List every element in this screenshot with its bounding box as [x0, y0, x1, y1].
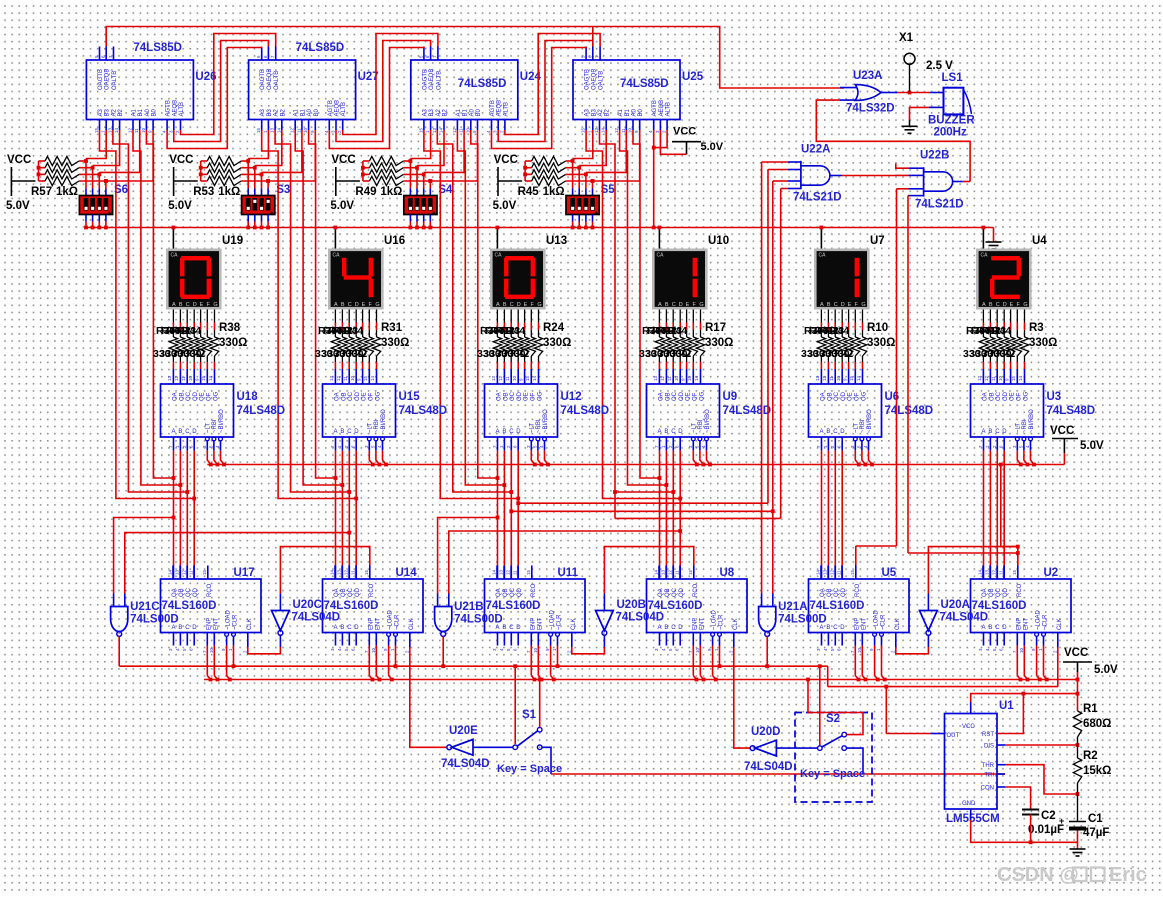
svg-text:14: 14: [978, 569, 983, 575]
svg-text:~LT: ~LT: [1016, 423, 1022, 433]
capacitor C2: [1022, 809, 1039, 811]
wire S1 bottom contact to timing line: [542, 747, 551, 774]
svg-text:74LS85D: 74LS85D: [620, 78, 669, 90]
wires ENP/ENT/LOAD to VCC bus: [692, 646, 694, 676]
svg-text:R44: R44: [344, 325, 363, 337]
svg-text:U5: U5: [882, 567, 897, 579]
svg-text:OA: OA: [496, 392, 502, 401]
counter U2 74LS160D: [971, 579, 1072, 633]
svg-text:~LOAD: ~LOAD: [550, 609, 556, 630]
svg-text:15: 15: [850, 569, 855, 575]
wire OR output to buzzer: [881, 92, 897, 94]
svg-text:Ω: Ω: [196, 348, 205, 360]
wire clock bus L1: [119, 665, 828, 667]
svg-text:12: 12: [182, 569, 187, 575]
resistor pack R24 330: [496, 310, 498, 323]
svg-text:C: C: [833, 429, 838, 435]
svg-text:QA: QA: [820, 588, 826, 597]
svg-text:14: 14: [276, 127, 281, 133]
wire 555 GND pin to ground bus: [970, 809, 972, 820]
svg-text:VCC: VCC: [962, 724, 975, 730]
svg-text:LS1: LS1: [942, 72, 964, 84]
svg-text:15: 15: [201, 375, 206, 381]
svg-text:C1: C1: [1088, 813, 1103, 825]
buzzer LS1: [944, 88, 964, 115]
svg-text:A: A: [658, 302, 662, 308]
svg-text:A: A: [172, 302, 176, 308]
OR gate U23A 74LS32D: [855, 85, 881, 101]
svg-text:QA: QA: [658, 588, 664, 597]
svg-text:B1: B1: [463, 108, 469, 116]
svg-text:13: 13: [823, 569, 828, 575]
svg-text:5.0V: 5.0V: [701, 141, 724, 153]
inverter U20B 74LS04D: [596, 611, 614, 631]
svg-text:10: 10: [1019, 647, 1024, 653]
svg-text:15: 15: [418, 127, 423, 133]
svg-text:U19: U19: [222, 235, 243, 247]
svg-text:RST: RST: [982, 732, 994, 738]
svg-text:VCC: VCC: [7, 154, 31, 166]
svg-text:U9: U9: [723, 391, 738, 403]
svg-text:74LS85D: 74LS85D: [133, 42, 182, 54]
svg-text:+: +: [270, 211, 274, 218]
svg-text:13: 13: [661, 569, 666, 575]
svg-text:QB: QB: [179, 588, 185, 597]
decoder U9 74LS48D: [647, 384, 720, 437]
wires U22A inputs: [788, 161, 801, 163]
svg-text:A: A: [496, 625, 500, 631]
svg-text:D: D: [840, 625, 845, 631]
svg-text:5.0V: 5.0V: [1080, 440, 1104, 452]
svg-text:VCC: VCC: [331, 154, 355, 166]
svg-text:RCO: RCO: [207, 583, 213, 597]
svg-text:U13: U13: [546, 235, 567, 247]
svg-text:G: G: [537, 302, 541, 308]
svg-text:OALTB: OALTB: [112, 71, 118, 90]
svg-text:15: 15: [581, 127, 586, 133]
svg-text:OG: OG: [862, 391, 868, 401]
svg-text:74LS85D: 74LS85D: [296, 42, 345, 54]
svg-text:QB: QB: [827, 588, 833, 597]
svg-text:U18: U18: [237, 391, 259, 403]
svg-text:B3: B3: [105, 108, 111, 116]
svg-text:U12: U12: [561, 391, 582, 403]
svg-text:D: D: [354, 429, 359, 435]
wire U22A output to U22B: [830, 175, 842, 177]
comparator U27 74LS85D: [249, 60, 356, 120]
svg-text:11: 11: [505, 376, 510, 381]
svg-text:U20C: U20C: [293, 599, 322, 611]
svg-text:QD: QD: [841, 587, 847, 597]
svg-text:13: 13: [270, 127, 275, 133]
wire cascade AGTB: [167, 47, 262, 149]
wire 555 THR elbow: [997, 764, 1005, 766]
svg-text:11: 11: [351, 570, 356, 575]
svg-text:D: D: [355, 302, 359, 308]
wire CLR to clear bus: [233, 646, 235, 667]
svg-text:U4: U4: [1032, 235, 1047, 247]
svg-text:A: A: [658, 625, 662, 631]
svg-text:QC: QC: [672, 587, 678, 597]
svg-text:13: 13: [491, 375, 496, 381]
svg-text:U14: U14: [396, 567, 418, 579]
svg-text:G: G: [699, 302, 703, 308]
resistor pack R53 1k: [201, 160, 208, 162]
wires decoder LT/RBI/BI to VCC bus: [1017, 451, 1021, 465]
DIP switch S4: [404, 196, 437, 215]
svg-text:B: B: [989, 302, 993, 308]
svg-text:~LOAD: ~LOAD: [388, 609, 394, 630]
svg-text:13: 13: [432, 127, 437, 133]
svg-text:C2: C2: [1041, 810, 1056, 822]
counter U17 74LS160D: [161, 579, 262, 633]
svg-text:OC: OC: [348, 391, 354, 401]
svg-text:15: 15: [363, 375, 368, 381]
wire S1 top contact to VCC bus: [539, 680, 541, 728]
svg-text:U20E: U20E: [449, 725, 478, 737]
svg-text:OB: OB: [989, 392, 995, 401]
svg-text:A: A: [820, 429, 824, 435]
wires DIP to bottom bus: [85, 215, 87, 222]
seven-segment display U16: [328, 249, 384, 310]
svg-text:C: C: [995, 625, 1000, 631]
svg-text:E: E: [524, 302, 528, 308]
svg-text:Ω: Ω: [358, 348, 367, 360]
svg-text:R53: R53: [193, 186, 214, 198]
svg-text:ENT: ENT: [1023, 618, 1029, 630]
svg-text:74LS160D: 74LS160D: [162, 600, 217, 612]
svg-text:OALTB: OALTB: [274, 71, 280, 90]
svg-text:CA: CA: [819, 253, 827, 259]
svg-text:12: 12: [290, 127, 295, 133]
wire cascade AEQB: [498, 41, 593, 142]
svg-text:OAGTB: OAGTB: [260, 69, 266, 90]
svg-text:~BI/RBO: ~BI/RBO: [381, 409, 387, 433]
wire VCC rail down: [1077, 672, 1079, 711]
svg-text:U23A: U23A: [853, 70, 882, 82]
svg-text:74LS160D: 74LS160D: [324, 600, 379, 612]
svg-text:U20A: U20A: [941, 599, 970, 611]
svg-text:D: D: [192, 429, 197, 435]
svg-text:11: 11: [991, 376, 996, 381]
wire display CK to bus: [496, 228, 498, 249]
svg-text:B: B: [665, 302, 669, 308]
svg-text:14: 14: [330, 569, 335, 575]
svg-text:13: 13: [107, 127, 112, 133]
svg-text:RCO: RCO: [855, 583, 861, 597]
svg-text:~CLR: ~CLR: [557, 614, 563, 630]
decoder bottom pins: [659, 437, 661, 451]
wire U25 AGTB down to bus: [653, 130, 655, 228]
svg-text:~RBI: ~RBI: [374, 419, 380, 433]
svg-text:U3: U3: [1047, 391, 1062, 403]
svg-text:1kΩ: 1kΩ: [218, 186, 240, 198]
svg-text:14: 14: [654, 569, 659, 575]
svg-text:ENP: ENP: [692, 618, 698, 630]
svg-text:A: A: [658, 429, 662, 435]
svg-text:B: B: [341, 302, 345, 308]
svg-text:10: 10: [998, 375, 1003, 381]
svg-text:74LS04D: 74LS04D: [744, 761, 793, 773]
svg-text:QD: QD: [679, 587, 685, 597]
svg-text:CLK: CLK: [733, 618, 739, 630]
svg-text:~RBI: ~RBI: [212, 419, 218, 433]
wire 555 VCC pin / RST to rail: [970, 702, 972, 714]
wires 85D B pins to switch: [573, 130, 593, 159]
svg-text:15: 15: [849, 375, 854, 381]
svg-text:15: 15: [688, 569, 693, 575]
svg-text:R10: R10: [867, 322, 888, 334]
svg-text:RCO: RCO: [693, 583, 699, 597]
svg-text:15: 15: [364, 569, 369, 575]
counter U14 74LS160D: [323, 579, 424, 633]
svg-text:12: 12: [668, 569, 673, 575]
wires decoder ABCD to counter outputs: [173, 451, 175, 566]
wire L1 to S2 pivot: [819, 666, 821, 746]
svg-text:~CLR: ~CLR: [395, 614, 401, 630]
svg-text:B2: B2: [280, 108, 286, 116]
svg-text:RCO: RCO: [1017, 583, 1023, 597]
svg-text:G: G: [375, 302, 379, 308]
svg-text:AEQB: AEQB: [497, 100, 503, 117]
svg-text:OAGTB: OAGTB: [422, 69, 428, 90]
wire VCC bus for decoders: [207, 464, 1064, 466]
svg-text:A: A: [334, 625, 338, 631]
decoder bottom pins: [335, 437, 337, 451]
svg-text:C: C: [347, 625, 352, 631]
svg-text:CLK: CLK: [247, 618, 253, 630]
svg-text:AGTB: AGTB: [490, 100, 496, 116]
resistor pack R3 330: [982, 310, 984, 323]
NAND gate U21A 74LS00D: [759, 607, 776, 632]
decoder bottom pins: [983, 437, 985, 451]
svg-text:14: 14: [114, 127, 119, 133]
svg-text:330Ω: 330Ω: [543, 337, 571, 349]
svg-text:VCC: VCC: [494, 154, 518, 166]
svg-text:A: A: [982, 429, 986, 435]
svg-text:OC: OC: [834, 391, 840, 401]
svg-text:CLK: CLK: [409, 618, 415, 630]
svg-text:OB: OB: [665, 392, 671, 401]
svg-text:14: 14: [816, 569, 821, 575]
svg-text:11: 11: [621, 128, 626, 133]
svg-text:VCC: VCC: [673, 126, 696, 138]
wires decoder LT/RBI/BI to VCC bus: [693, 451, 697, 465]
wire 555 OUT stub: [931, 733, 945, 735]
svg-text:~BI/RBO: ~BI/RBO: [219, 409, 225, 433]
wire display CK to bus: [820, 228, 822, 249]
wires decoder ABCD to counter outputs: [821, 451, 823, 566]
svg-text:R44: R44: [992, 325, 1011, 337]
wires decoder ABCD to counter outputs: [983, 451, 985, 566]
svg-text:A: A: [172, 429, 176, 435]
svg-text:BUZZER: BUZZER: [928, 115, 975, 127]
svg-text:QA: QA: [172, 588, 178, 597]
svg-text:E: E: [362, 302, 366, 308]
svg-text:1kΩ: 1kΩ: [380, 186, 402, 198]
svg-text:14: 14: [370, 375, 375, 381]
svg-text:D: D: [516, 625, 521, 631]
svg-text:A3: A3: [260, 108, 266, 116]
svg-text:D: D: [354, 625, 359, 631]
svg-text:C: C: [833, 625, 838, 631]
svg-text:G: G: [861, 302, 865, 308]
svg-text:C: C: [185, 429, 190, 435]
wire U25 ALTB join: [654, 130, 667, 148]
wires decoder ABCD to counter outputs: [659, 451, 661, 566]
svg-text:C: C: [671, 429, 676, 435]
svg-text:A3: A3: [585, 108, 591, 116]
svg-text:~CLR: ~CLR: [719, 614, 725, 630]
ground symbol 555: [1077, 842, 1079, 849]
inverter U20C 74LS04D: [272, 611, 290, 631]
svg-text:OB: OB: [341, 392, 347, 401]
svg-text:11: 11: [837, 570, 842, 575]
svg-text:C: C: [348, 302, 352, 308]
inverter U20D 74LS04D: [755, 740, 776, 756]
svg-text:A: A: [172, 625, 176, 631]
comparator U24 74LS85D: [411, 60, 518, 120]
wire display CK to bus: [334, 228, 336, 249]
NAND gate U21B 74LS00D: [435, 607, 452, 632]
svg-text:OD: OD: [193, 391, 199, 401]
wire U22B output: [953, 181, 963, 183]
svg-text:B: B: [502, 625, 506, 631]
svg-text:R49: R49: [355, 186, 376, 198]
svg-text:74LS48D: 74LS48D: [399, 405, 448, 417]
svg-text:OG: OG: [1024, 391, 1030, 401]
wires decoder ABCD to counter outputs: [335, 451, 337, 566]
wire display CK to bus: [172, 228, 174, 249]
svg-text:U8: U8: [720, 567, 735, 579]
svg-text:A0: A0: [632, 108, 638, 116]
svg-text:QC: QC: [510, 587, 516, 597]
svg-text:E: E: [1010, 302, 1014, 308]
wires decoder LT/RBI/BI to VCC bus: [855, 451, 859, 465]
svg-text:A1: A1: [456, 108, 462, 116]
svg-text:11: 11: [667, 376, 672, 381]
wire U20E input to S1 pivot: [473, 746, 513, 748]
svg-text:U15: U15: [399, 391, 421, 403]
svg-text:B0: B0: [152, 108, 158, 116]
svg-text:10: 10: [674, 375, 679, 381]
wire R pack left bus: [200, 161, 202, 181]
svg-text:U22B: U22B: [920, 150, 949, 162]
svg-text:CSDN @: CSDN @: [997, 864, 1079, 886]
svg-text:200Hz: 200Hz: [934, 127, 967, 139]
wire cascade ALTB: [505, 34, 600, 135]
svg-text:A3: A3: [422, 108, 428, 116]
svg-text:11: 11: [829, 376, 834, 381]
svg-text:11: 11: [999, 570, 1004, 575]
decoder U15 74LS48D: [323, 384, 396, 437]
svg-text:LM555CM: LM555CM: [946, 813, 1000, 825]
svg-text:13: 13: [594, 127, 599, 133]
resistor pack R38 330: [172, 310, 174, 323]
wire VCC bus L2: [204, 679, 1078, 681]
svg-text:A: A: [496, 429, 500, 435]
svg-text:ENP: ENP: [206, 618, 212, 630]
svg-text:~BI/RBO: ~BI/RBO: [867, 409, 873, 433]
svg-text:A: A: [334, 302, 338, 308]
svg-text:A0: A0: [145, 108, 151, 116]
wire S2 bottom contact to timing line: [847, 748, 864, 774]
svg-text:ENT: ENT: [537, 618, 543, 630]
decoder U12 74LS48D: [485, 384, 558, 437]
svg-text:14: 14: [694, 375, 699, 381]
svg-text:D: D: [1003, 302, 1007, 308]
resistor pack R45 1k: [525, 160, 532, 162]
svg-text:+: +: [108, 211, 112, 218]
svg-text:12: 12: [992, 569, 997, 575]
svg-text:74LS04D: 74LS04D: [940, 612, 989, 624]
svg-text:330Ω: 330Ω: [705, 337, 733, 349]
svg-text:D: D: [193, 302, 197, 308]
svg-text:G: G: [213, 302, 217, 308]
svg-text:ENT: ENT: [213, 618, 219, 630]
svg-text:74LS48D: 74LS48D: [561, 405, 610, 417]
svg-text:S2: S2: [826, 713, 840, 725]
DIP switch S6: [79, 196, 112, 215]
svg-text:OD: OD: [679, 391, 685, 401]
svg-text:OE: OE: [362, 392, 368, 401]
AND gate U22A 74LS21D: [800, 161, 802, 189]
wire cascade ALTB: [343, 34, 438, 135]
svg-text:1kΩ: 1kΩ: [543, 186, 565, 198]
svg-text:A0: A0: [307, 108, 313, 116]
inverter output wire to counter CLK: [927, 635, 929, 647]
svg-text:330Ω: 330Ω: [867, 337, 895, 349]
svg-text:~LOAD: ~LOAD: [226, 609, 232, 630]
svg-text:12: 12: [506, 569, 511, 575]
svg-text:B1: B1: [625, 108, 631, 116]
ground symbol right of U7: [993, 228, 995, 243]
svg-text:D: D: [517, 302, 521, 308]
svg-text:B: B: [178, 429, 182, 435]
wire U22B input3 vertical: [897, 188, 909, 190]
NAND output wire to clock bus: [118, 636, 120, 666]
svg-text:D: D: [1002, 625, 1007, 631]
resistor pack R31 330: [334, 310, 336, 323]
wire U22B input4 vertical: [907, 195, 910, 197]
svg-text:~RBI: ~RBI: [698, 419, 704, 433]
svg-text:A: A: [496, 302, 500, 308]
svg-text:B0: B0: [476, 108, 482, 116]
svg-text:12: 12: [452, 127, 457, 133]
svg-text:E: E: [200, 302, 204, 308]
svg-text:OC: OC: [510, 391, 516, 401]
svg-text:CA: CA: [495, 253, 503, 259]
svg-text:OE: OE: [848, 392, 854, 401]
svg-text:10: 10: [209, 647, 214, 653]
svg-text:B: B: [340, 429, 344, 435]
svg-text:R38: R38: [219, 322, 241, 334]
svg-text:QC: QC: [834, 587, 840, 597]
svg-text:GND: GND: [962, 801, 976, 807]
wire U25 AEQB rise: [592, 27, 594, 47]
wires ENP/ENT/LOAD to VCC bus: [206, 646, 208, 676]
svg-text:13: 13: [815, 375, 820, 381]
svg-text:G: G: [1023, 302, 1027, 308]
svg-text:12: 12: [614, 127, 619, 133]
svg-text:13: 13: [985, 569, 990, 575]
svg-text:Eric: Eric: [1109, 864, 1147, 886]
svg-text:74LS04D: 74LS04D: [441, 758, 490, 770]
svg-text:R2: R2: [1083, 750, 1098, 762]
wires 85D B pins to switch: [248, 130, 268, 159]
svg-text:680Ω: 680Ω: [1083, 718, 1111, 730]
svg-text:74LS04D: 74LS04D: [292, 612, 341, 624]
